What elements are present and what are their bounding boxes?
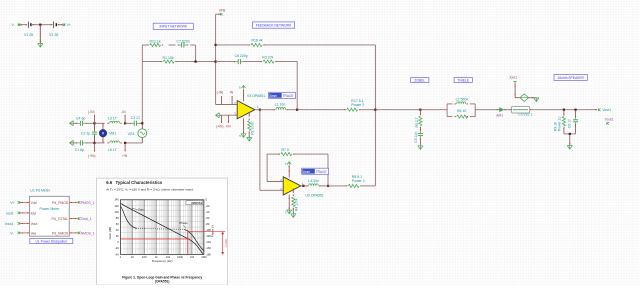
- svg-text:-60: -60: [206, 216, 210, 220]
- svg-text:Pd_PMOS: Pd_PMOS: [52, 201, 69, 205]
- node top row mid: [124, 122, 126, 124]
- svg-text:40: 40: [116, 228, 119, 232]
- svg-text:C5 10n: C5 10n: [414, 132, 418, 143]
- ground left of C4: [70, 121, 74, 126]
- svg-text:Gain: Gain: [138, 208, 144, 212]
- pin V+ / Vdd: [18, 201, 20, 204]
- svg-text:R18 4k: R18 4k: [252, 39, 263, 43]
- resistor R21 1k: [150, 43, 161, 46]
- svg-text:VM1: VM1: [109, 132, 116, 136]
- wire diamond to ground: [529, 97, 537, 99]
- node load R9: [563, 109, 565, 111]
- capacitor C2 2p: [94, 123, 96, 131]
- svg-text:V+: V+: [10, 201, 14, 205]
- svg-text:C7 620n: C7 620n: [177, 39, 190, 43]
- svg-text:(OPA551): (OPA551): [155, 280, 170, 284]
- resistor R6 10: [457, 115, 468, 118]
- capacitor C5 10n: [419, 128, 421, 132]
- svg-text:Iout: Iout: [31, 211, 37, 215]
- wire input lower branch: [142, 61, 161, 63]
- wire V3 -IN: [216, 104, 238, 106]
- label box FEEDBACK NETWORK: [252, 22, 294, 28]
- wire node to R17: [297, 109, 345, 111]
- wire top-branch right drop: [195, 45, 197, 62]
- svg-text:R5 2.7: R5 2.7: [415, 117, 419, 127]
- controlled source CCVS2 1: [512, 106, 530, 113]
- inductor L1 10n: [276, 108, 286, 110]
- svg-text:U1 Pd Meter: U1 Pd Meter: [30, 189, 50, 193]
- svg-text:+IN: +IN: [225, 124, 231, 128]
- red marker horizontal lower: [120, 238, 189, 240]
- svg-text:V-: V-: [12, 23, 15, 27]
- capacitor C6 1n load: [575, 110, 577, 118]
- svg-text:R7 0: R7 0: [282, 148, 289, 152]
- svg-text:AM1: AM1: [496, 113, 503, 117]
- ground right of diamond: [534, 98, 539, 102]
- wire L1 to node: [287, 109, 298, 111]
- wire R18 branch: [216, 44, 250, 46]
- wire VFB vertical: [216, 13, 221, 15]
- net pin V+: [63, 23, 65, 26]
- ground below load: [569, 134, 571, 145]
- ground left of C1: [70, 140, 74, 145]
- wire R18 right vertical: [374, 45, 376, 186]
- svg-text:Total_1: Total_1: [81, 217, 92, 221]
- thiele frame: [446, 104, 448, 117]
- red annotation double arrow: [222, 233, 224, 254]
- svg-text:140: 140: [114, 198, 119, 202]
- wire V3 +IN: [219, 114, 237, 116]
- phase curve dotted part: [136, 228, 184, 231]
- capacitor C3 1T: [125, 122, 131, 124]
- svg-text:Vout: Vout: [31, 222, 38, 226]
- net stub (-IN) source: [94, 115, 96, 124]
- node between batteries: [39, 24, 41, 26]
- label box 6mm TRACE upper: [269, 92, 296, 98]
- svg-text:100: 100: [114, 210, 119, 214]
- graph grid: [120, 200, 203, 255]
- svg-text:NMOS_1: NMOS_1: [81, 231, 95, 235]
- graph label OPA551: [186, 201, 203, 205]
- svg-text:R1 10k: R1 10k: [163, 56, 174, 60]
- pin Iout1 / Iout: [18, 212, 20, 215]
- svg-text:V+: V+: [67, 23, 71, 27]
- net stub -IN source: [124, 115, 126, 124]
- svg-text:Iout1: Iout1: [6, 211, 14, 215]
- svg-text:-160: -160: [206, 246, 212, 250]
- label box U1 Power Dissipation: [30, 238, 73, 243]
- ground below supply: [40, 41, 41, 42]
- net stub +IN source: [124, 143, 126, 152]
- capacitor C4 6p: [73, 122, 77, 124]
- svg-text:R4 100k: R4 100k: [295, 198, 299, 211]
- svg-text:-IN: -IN: [229, 90, 234, 94]
- svg-text:~2 MHz: ~2 MHz: [224, 238, 228, 248]
- capacitor C7 620n: [179, 44, 182, 46]
- svg-text:L3 1T: L3 1T: [108, 117, 118, 121]
- svg-text:10M: 10M: [201, 255, 207, 259]
- inductor L2 500n: [457, 102, 466, 104]
- net stub +IN: [227, 115, 229, 123]
- svg-text:Frequency (Hz): Frequency (Hz): [152, 259, 173, 263]
- svg-text:6.6: 6.6: [106, 180, 113, 185]
- resistor R7 0: [281, 153, 292, 156]
- svg-text:60: 60: [116, 222, 119, 226]
- svg-text:U1 Power Dissipation: U1 Power Dissipation: [36, 239, 68, 243]
- svg-text:CCVS2 1: CCVS2 1: [518, 113, 532, 117]
- node VFB/lower-branch: [215, 61, 217, 63]
- label box INPUT NETWORK: [153, 23, 193, 29]
- wire load bottom bar: [564, 133, 576, 135]
- op-amp U2 OPA551: [283, 177, 301, 195]
- net stub (+IN) source: [94, 143, 96, 152]
- graph axis labels: [114, 198, 119, 257]
- svg-text:Vout1: Vout1: [605, 117, 614, 121]
- V3 V- power stub: [243, 118, 245, 133]
- battery V2 28: [53, 22, 55, 28]
- pin V- / Vee: [18, 232, 20, 235]
- svg-text:L1 10n: L1 10n: [275, 103, 286, 107]
- svg-text:Gain (dB): Gain (dB): [108, 227, 112, 240]
- net stub (+IN): [221, 115, 223, 123]
- resistor R2 100k: [248, 112, 250, 117]
- svg-text:-40: -40: [115, 252, 119, 256]
- resistor R1 10k: [163, 60, 174, 63]
- node load C: [574, 109, 576, 111]
- svg-text:VG1: VG1: [128, 132, 135, 136]
- node VG1 top: [141, 122, 143, 124]
- inductor L4 10n: [309, 184, 319, 186]
- resistor R17 5.1 Power 2: [347, 108, 358, 111]
- wire to ground: [39, 25, 41, 44]
- graph plot area: [120, 200, 203, 255]
- capacitor C6 220p: [236, 61, 239, 63]
- svg-text:-140: -140: [206, 240, 212, 244]
- U2 V+ power stub: [288, 165, 290, 177]
- node VFB/R18: [215, 44, 217, 46]
- svg-text:-20: -20: [115, 246, 119, 250]
- svg-text:L5 1T: L5 1T: [108, 148, 118, 152]
- wire C6-R3 branch: [216, 61, 235, 63]
- wire L4 node to R8: [319, 185, 328, 187]
- svg-text:R21 1k: R21 1k: [150, 39, 161, 43]
- wire R7 right down: [293, 153, 328, 155]
- ground below R4: [292, 208, 294, 213]
- wire VG1 bottom: [141, 138, 143, 143]
- svg-text:OPA551: OPA551: [191, 201, 202, 205]
- svg-text:ZOBEL: ZOBEL: [414, 78, 425, 82]
- wire U2 -IN loop: [267, 181, 283, 183]
- wire AM1 to CCVS2: [506, 109, 511, 111]
- svg-text:R2 100k: R2 100k: [251, 122, 255, 135]
- svg-text:PMOS_1: PMOS_1: [81, 201, 95, 205]
- svg-text:L2 500n: L2 500n: [456, 97, 469, 101]
- svg-text:-40: -40: [206, 210, 210, 214]
- svg-text:(+IN): (+IN): [216, 124, 223, 128]
- ground below R2: [248, 132, 250, 137]
- svg-text:V2 28: V2 28: [49, 33, 58, 37]
- svg-text:10: 10: [131, 255, 134, 259]
- capacitor C1 6p: [73, 142, 77, 144]
- svg-text:Vout1: Vout1: [602, 108, 611, 112]
- svg-text:Vdd: Vdd: [31, 201, 37, 205]
- svg-text:C6 220p: C6 220p: [235, 54, 248, 58]
- svg-text:(-IN): (-IN): [88, 110, 95, 114]
- label box 16ohm SPEAKER: [554, 75, 587, 81]
- node bottom row mid: [124, 142, 126, 144]
- ground below C5: [419, 139, 421, 146]
- svg-text:Power Meter: Power Meter: [40, 207, 61, 211]
- svg-text:120: 120: [114, 204, 119, 208]
- svg-text:Vee: Vee: [31, 231, 37, 235]
- svg-text:Pd_TOTAL: Pd_TOTAL: [52, 217, 69, 221]
- inductor L5 1T: [95, 142, 105, 144]
- net pin VFB: [220, 13, 222, 16]
- node L1/R3: [296, 109, 298, 111]
- resistor R18 4k: [251, 43, 262, 46]
- svg-text:(+IN): (+IN): [88, 154, 95, 158]
- svg-text:C4 6p: C4 6p: [76, 117, 85, 121]
- resistor R5 2.7: [419, 110, 421, 115]
- resistor R9 16 Power 10: [563, 110, 565, 115]
- svg-text:U2 OPA551: U2 OPA551: [305, 193, 323, 197]
- svg-text:Phase: Phase: [179, 221, 188, 225]
- svg-text:THIELE: THIELE: [457, 78, 469, 82]
- dependent source diamond: [520, 94, 529, 101]
- op-amp V3 OPA551: [237, 101, 255, 119]
- svg-text:20: 20: [116, 234, 119, 238]
- net pin V-: [18, 23, 20, 26]
- svg-text:-80: -80: [206, 222, 210, 226]
- svg-text:Power 2: Power 2: [352, 179, 365, 183]
- svg-text:Typical Characteristics: Typical Characteristics: [116, 180, 163, 185]
- svg-text:L4 10n: L4 10n: [308, 179, 319, 183]
- wire R17 to node: [360, 109, 376, 111]
- svg-text:C6 1n: C6 1n: [568, 119, 572, 128]
- wire C bottom: [575, 124, 577, 134]
- svg-text:Power 2: Power 2: [351, 103, 364, 107]
- svg-text:16ohm SPEAKER: 16ohm SPEAKER: [557, 76, 584, 80]
- wire V3 output: [255, 109, 260, 111]
- voltage source VG1: [141, 123, 143, 129]
- svg-text:FEEDBACK NETWORK: FEEDBACK NETWORK: [256, 23, 292, 27]
- wire supply row: [19, 24, 27, 26]
- svg-text:R3 27k: R3 27k: [262, 56, 273, 60]
- inductor L3 1T: [95, 122, 105, 124]
- svg-text:-20: -20: [206, 204, 210, 208]
- svg-text:V3 OPA551: V3 OPA551: [247, 94, 265, 98]
- ammeter AM1: [497, 108, 506, 112]
- resistor R4 100k: [292, 188, 294, 193]
- gain curve: [121, 204, 203, 254]
- ground at V3 +IN: [216, 113, 220, 118]
- node load bottom: [569, 133, 571, 135]
- node bottom row left: [93, 142, 95, 144]
- battery V1 28: [27, 22, 29, 28]
- wire U2 output: [301, 185, 304, 187]
- svg-text:Vout1: Vout1: [5, 222, 14, 226]
- svg-text:C3 1T: C3 1T: [131, 116, 141, 120]
- V3 V+ power stub: [243, 89, 245, 101]
- node V3 output: [259, 109, 261, 111]
- node top row left: [93, 122, 95, 124]
- wire input-network left vertical: [141, 45, 143, 123]
- node R18/main: [374, 109, 376, 111]
- label box ZOBEL: [411, 78, 429, 83]
- node L4/R7: [327, 185, 329, 187]
- datasheet panel: [97, 178, 228, 285]
- red marker vertical: [187, 230, 189, 255]
- wire Iout1 to diamond: [514, 83, 516, 97]
- wire main to zobel: [375, 109, 420, 111]
- wire input top branch: [142, 44, 148, 46]
- svg-text:VFB: VFB: [219, 8, 226, 12]
- label box THIELE: [454, 78, 472, 83]
- svg-text:(-IN): (-IN): [217, 90, 224, 94]
- node zobel tap: [419, 109, 421, 111]
- label box 6mm TRACE lower: [302, 168, 329, 174]
- voltmeter VM1: [102, 123, 104, 129]
- svg-text:At Tₐ = 25°C, Vₛ = ±30 V and R: At Tₐ = 25°C, Vₛ = ±30 V and Rₗ = 3 kΩ, …: [106, 188, 194, 192]
- svg-text:100k: 100k: [177, 255, 183, 259]
- wire CCVS2 to load: [530, 109, 597, 111]
- svg-text:Power 10: Power 10: [558, 117, 562, 131]
- svg-text:Pd_NMOS: Pd_NMOS: [52, 231, 69, 235]
- wire output to L1: [260, 109, 275, 111]
- phase curve drop: [184, 229, 204, 251]
- wire to L4: [304, 185, 308, 187]
- net stub (-IN): [221, 96, 223, 104]
- resistor R8 5.1 Power 2: [348, 184, 359, 187]
- net pin Iout1: [513, 82, 516, 84]
- svg-text:C1 6p: C1 6p: [75, 148, 84, 152]
- phase curve solid part: [121, 207, 137, 229]
- wire V3 out down to U2 +IN: [259, 110, 261, 191]
- wire R9 bottom: [563, 128, 565, 134]
- node U2 output: [302, 185, 304, 187]
- resistor R3 27k: [263, 60, 274, 63]
- svg-text:V1 28: V1 28: [24, 33, 33, 37]
- svg-text:V-: V-: [10, 231, 13, 235]
- wire R8 to R18 vertical: [361, 185, 375, 187]
- wire thiele to AM1: [475, 109, 496, 111]
- graph frame: [120, 200, 203, 255]
- net stub -IN: [231, 96, 233, 104]
- svg-text:6mm: 6mm: [303, 170, 310, 174]
- net pin Vout1 right: [595, 109, 596, 110]
- pin Vout1 / Vout: [18, 222, 20, 225]
- svg-text:100: 100: [142, 255, 147, 259]
- wire to thiele: [420, 109, 447, 111]
- svg-text:INPUT NETWORK: INPUT NETWORK: [159, 25, 187, 29]
- svg-text:TRACE: TRACE: [316, 170, 327, 174]
- node input-network right: [195, 61, 197, 63]
- svg-text:-IN: -IN: [121, 110, 126, 114]
- svg-text:6mm: 6mm: [270, 94, 277, 98]
- red marker horizontal upper: [188, 230, 225, 232]
- wire R3 right vertical: [296, 62, 298, 110]
- svg-text:R6 10: R6 10: [457, 109, 466, 113]
- svg-text:TRACE: TRACE: [283, 94, 294, 98]
- svg-text:C2 2p: C2 2p: [81, 131, 90, 135]
- svg-text:+IN: +IN: [122, 154, 128, 158]
- U2 V- power stub: [288, 195, 290, 210]
- svg-text:Iout1: Iout1: [510, 76, 518, 80]
- svg-text:80: 80: [116, 216, 119, 220]
